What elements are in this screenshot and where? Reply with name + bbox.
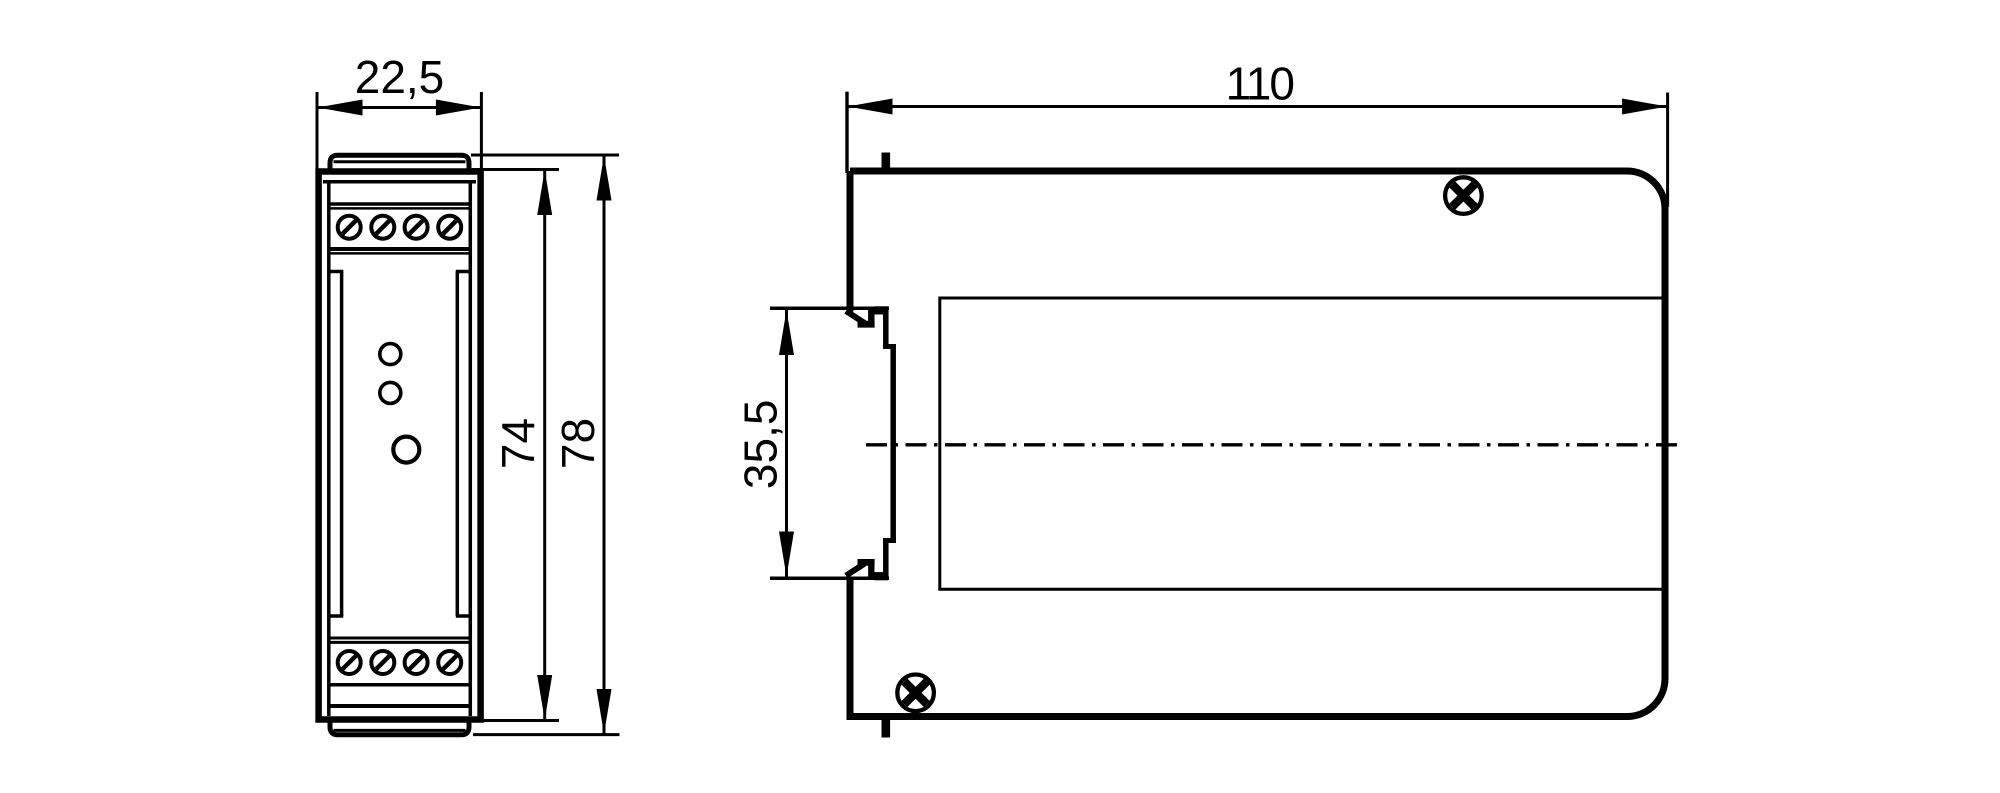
bottom mounting tab [881,719,890,738]
terminal screw 3 top [405,216,428,239]
dimension line 74 [543,170,546,720]
label plate rectangle [940,298,1662,589]
top terminal block top line 2 [331,207,470,210]
arrowhead 35,5 down [779,532,794,577]
arrowhead left 110 [848,99,893,115]
dimension line 78 [603,156,606,735]
extension line right of 22,5 [480,92,483,171]
DIN rail channel lower step [883,538,896,543]
svg-text:22,5: 22,5 [355,51,445,103]
centerline [866,443,1684,446]
arrowhead 78 up [597,156,612,201]
extension line 74 bottom [482,719,559,722]
terminal screw 2 bottom [371,651,394,674]
arrowhead 35,5 up [779,310,794,355]
terminal screw 2 top [371,216,394,239]
front plate groove right step top [456,270,471,274]
bottom terminal block bottom line [331,683,470,687]
arrowhead 74 up [537,170,552,215]
svg-text:74: 74 [492,418,544,469]
extension line left of 110 [845,92,848,173]
LED 1 [380,344,401,365]
body outline [319,172,481,720]
extension line left of 22,5 [316,92,319,170]
terminal screw 4 top [438,216,461,239]
housing outline [850,171,1665,717]
top mounting tab [881,153,890,169]
arrowhead 78 down [597,689,612,734]
DIN rail claw bottom [846,562,875,577]
terminal screw 3 bottom [405,651,428,674]
front plate groove left inner [340,272,344,617]
front plate groove left step top [329,270,344,274]
LED 2 [380,382,401,403]
front plate groove right outer [469,182,473,716]
dimension line 22,5 [317,106,481,109]
bottom terminal block top line [331,641,470,644]
screw bottom [897,675,934,712]
svg-text:35,5: 35,5 [735,400,787,490]
bottom cap inner line [334,729,466,732]
extension line 78 bottom [473,733,620,736]
front plate groove right step bottom [456,614,471,618]
top cap [330,155,469,172]
top terminal block bottom line 2 [331,252,470,255]
svg-text:78: 78 [552,418,604,469]
terminal screw 4 bottom [438,651,461,674]
body bottom inner line [331,704,470,708]
DIN rail channel upper step [883,344,896,349]
top terminal block top line [331,202,470,206]
extension line 74 top [472,168,559,171]
top cap inner line [334,160,466,163]
LED 3 [393,437,419,463]
DIN rail channel upper vertical [883,309,889,347]
arrowhead left 22,5 [318,100,363,116]
front plate groove left outer [327,182,331,716]
arrowhead right 110 [1622,99,1667,115]
bottom cap [330,719,469,735]
extension line right of 110 [1666,93,1669,208]
terminal screw 1 bottom [338,651,361,674]
front plate groove right inner [456,272,460,617]
svg-text:110: 110 [1226,58,1294,110]
body top inner line [323,180,476,184]
dimension line 35,5 [785,310,788,577]
top terminal block bottom line [331,247,470,251]
arrowhead right 22,5 [436,100,481,116]
terminal screw 1 top [338,216,361,239]
extension line 35,5 top [770,307,889,311]
screw top [1445,177,1482,214]
front plate groove left step bottom [329,614,344,618]
extension line 35,5 bottom [770,577,889,581]
DIN rail claw top [846,310,875,325]
arrowhead 74 down [537,675,552,720]
DIN rail channel middle vertical [890,344,896,543]
front plate bottom line [331,637,470,640]
extension line 78 top [471,154,619,157]
dimension line 110 [847,105,1668,108]
DIN rail channel lower vertical [883,541,889,578]
